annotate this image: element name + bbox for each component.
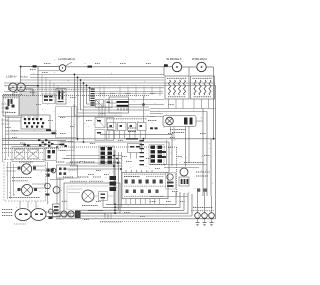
wire - conv box bottom ticks	[65, 213, 67, 218]
wire - latch link	[31, 214, 32, 216]
power cord plug P2	[17, 83, 26, 92]
wire - right link row	[164, 164, 207, 166]
wire - ERC feed verticals	[113, 150, 115, 204]
connector column CN3	[110, 176, 117, 180]
wire - bottom dotted row	[100, 220, 180, 222]
svg-text:L2 RD-WH A: L2 RD-WH A	[59, 57, 76, 61]
wire - right link row 2	[164, 167, 199, 169]
wire - bottom bus corner 1	[106, 192, 176, 204]
wire - bottom bus corner 2	[103, 192, 180, 207]
wire - harness bus 8 dotted	[2, 95, 150, 97]
wire - ERC bottom ticks	[125, 199, 127, 205]
wire - bottom bus corner 5	[56, 194, 192, 216]
relay contact RC1	[96, 100, 104, 108]
thermostat block TB1	[57, 165, 78, 178]
label BTL	[148, 120, 157, 122]
wire - TB2 drops	[130, 153, 132, 159]
wire - right feeder 2	[150, 111, 207, 113]
ERC inner terminal dashes	[124, 173, 166, 175]
label TOD line B	[89, 180, 103, 182]
transformer TR1 winding bars	[117, 101, 129, 103]
switch body DS3	[75, 211, 81, 219]
splice bars right	[46, 129, 51, 131]
svg-text:W RD-WH A: W RD-WH A	[192, 57, 207, 61]
switch assembly SW4	[12, 147, 44, 162]
control transformer box	[109, 97, 129, 113]
wire - harness bus 7b	[95, 92, 163, 94]
label bottom center	[100, 221, 122, 223]
wire - harness bus 3	[20, 79, 164, 81]
label ERC bottom	[124, 195, 164, 197]
relay enclosure E1	[56, 107, 77, 138]
wire - harness bus 5	[4, 84, 216, 86]
splice marks beside CN2	[162, 151, 166, 153]
lamp switch contacts	[184, 118, 188, 125]
fuse F1 inline on L2	[59, 65, 66, 72]
transformer taps	[117, 108, 119, 111]
fuse block FB1	[53, 204, 61, 217]
convection fan motor FM1	[82, 190, 94, 202]
door latch cam DL1	[15, 209, 31, 221]
contact cluster CC2	[47, 169, 50, 172]
wire - bottom bus corner 6	[56, 218, 216, 220]
wire - bottom comb left	[104, 213, 106, 219]
electronic range control board	[122, 173, 168, 199]
wire - harness bus 4	[4, 82, 216, 84]
wire - relay bottom comb	[108, 131, 110, 139]
relay contact RC4	[107, 118, 114, 128]
wire - row y179.5	[50, 179, 64, 181]
wire - harness bus 2	[30, 76, 164, 78]
wire - switch comb	[19, 88, 21, 116]
wire - right vertical 2	[206, 112, 208, 197]
wire - bottom bus corner 3	[88, 193, 184, 210]
wire - motor box internals	[7, 162, 9, 199]
label ERC mid	[146, 176, 164, 178]
ground symbol G1	[196, 222, 200, 224]
thermal switch TS1	[44, 96, 48, 98]
element block EB2	[191, 76, 215, 99]
label cluster C1	[128, 127, 137, 129]
element block EB1	[165, 76, 189, 99]
wire - convection internal leads	[68, 188, 83, 190]
contact pair CP1	[46, 148, 57, 161]
wire - mid-left rows	[5, 130, 57, 132]
wire - L2 supply run	[21, 66, 60, 68]
label neutral wire	[3, 94, 22, 96]
ground symbol G2	[203, 222, 207, 224]
wire - nest continuations	[77, 113, 79, 141]
wire - left drop comb	[56, 178, 58, 204]
label TOD line A	[70, 180, 87, 182]
label left edge column	[2, 103, 10, 105]
power cord plug P1	[9, 83, 18, 92]
svg-text:W RD-WH A: W RD-WH A	[167, 57, 182, 61]
oven temperature sensor	[180, 168, 188, 176]
wire - RC top link	[112, 99, 164, 101]
wire - above corner link	[150, 196, 188, 198]
wire - ERC feed horizontals	[66, 162, 122, 164]
relay K3	[128, 123, 137, 131]
wire - element block drops	[168, 99, 170, 109]
wire - TR lead	[108, 102, 117, 104]
wire color labels sprinkled	[42, 72, 48, 74]
node - L2 termination	[164, 64, 168, 67]
relay contact RC2	[105, 100, 112, 108]
label motor box bottom	[9, 197, 40, 199]
oven lamp assembly box	[163, 116, 196, 127]
relay contact RC6	[107, 130, 114, 141]
wire - nest down stubs	[98, 100, 100, 117]
wire - bottom bus corner 4	[56, 193, 188, 213]
label lamp designators	[191, 210, 214, 212]
label ERC title	[124, 176, 140, 178]
junction box JB1	[21, 115, 50, 129]
wire - plug leads	[25, 85, 38, 87]
oven lamp LA1	[166, 117, 174, 125]
wire - right vertical 3	[210, 139, 212, 196]
indicator lamp IL3	[209, 213, 215, 219]
wire - lamp box drops	[170, 127, 172, 135]
door switch DS1	[61, 211, 67, 217]
surface element SE1	[172, 62, 181, 71]
wire - mid bus 3	[60, 142, 169, 173]
convection enclosure outer	[64, 183, 120, 213]
node - bus junction dots	[74, 74, 76, 76]
relay contact RC3	[95, 118, 105, 128]
wire - bus drop ticks	[41, 74, 43, 95]
sensor companion switch	[166, 173, 176, 190]
splice on L2 right	[88, 66, 93, 68]
splice cluster B	[38, 139, 40, 141]
door latch cam DL2	[31, 209, 46, 221]
surface element SE2	[197, 62, 206, 71]
wire - nested drop bundle	[75, 74, 123, 116]
splice pair right-center	[150, 127, 153, 129]
wire - left edge verticals	[2, 118, 4, 162]
label bottom lamps	[193, 207, 213, 209]
relay K2	[118, 123, 127, 131]
wire - mid bus 4 dotted	[60, 146, 177, 148]
wire - mid bus 1	[100, 134, 172, 166]
wire - harness bus 6	[8, 87, 164, 89]
label convection fan	[82, 205, 98, 207]
latch motor enclosure dashed	[4, 160, 46, 202]
latch aux contacts	[49, 209, 54, 214]
splice column SC1	[140, 140, 145, 141]
wire - ERC feed left 2	[62, 158, 122, 160]
indicator lamp IL2	[202, 213, 208, 219]
label under ovals	[14, 223, 26, 225]
wire - right feeder 1	[150, 108, 216, 110]
wire - dotted row above dashed box	[2, 151, 44, 153]
wire - oven sensor leads	[185, 127, 187, 167]
wire - under relay row	[58, 116, 164, 118]
label center row y162	[56, 161, 65, 163]
label sensor line 1	[196, 171, 210, 173]
wire - harness bus 7	[4, 91, 163, 93]
relay K1	[108, 123, 117, 131]
indicator lamp IL1	[195, 213, 201, 219]
label bus band dotted row	[8, 89, 88, 91]
wire - mid bus 2	[2, 138, 216, 140]
wire - main left drop	[37, 67, 39, 119]
ERC component row 2	[126, 190, 129, 194]
wire - ERC feed left 1	[66, 155, 122, 157]
label latch motor upper	[19, 161, 33, 163]
wire - TR to right	[129, 104, 165, 106]
wire - branch stub	[38, 70, 59, 72]
wire - left bundle	[2, 139, 66, 141]
label above ERC	[150, 164, 166, 166]
wire - harness bus 1	[30, 73, 164, 75]
wire - dashed box to ovals	[19, 201, 21, 209]
wire - SE1 leads	[164, 66, 172, 68]
wire - right vertical 4	[215, 85, 217, 218]
fuse FP1	[197, 189, 200, 192]
label motor box middle	[12, 177, 32, 179]
label relay row	[107, 118, 147, 120]
wire - CN2 side vertical	[166, 140, 168, 165]
connector CN2	[149, 145, 164, 165]
selector switch block SW1	[3, 96, 19, 116]
relay K4	[138, 123, 147, 131]
connector CN1	[99, 146, 114, 165]
connector pin strip PS1	[91, 89, 95, 90]
thermostat pilot circle	[51, 168, 56, 173]
node - ERC feed junctions	[113, 165, 115, 167]
door switch DS2	[68, 211, 74, 217]
latch motor M2	[22, 185, 33, 196]
ERC top terminals	[125, 170, 127, 173]
wire - door switch leads	[81, 210, 104, 212]
splice on L2 left	[33, 65, 37, 67]
fuse FP2	[204, 189, 207, 192]
wire - SE2 leads	[189, 66, 197, 68]
wire - lamp leads	[150, 113, 163, 115]
wire - below switch lines	[5, 117, 21, 119]
relay contact RC5	[95, 130, 105, 141]
label SL-DSC	[184, 162, 204, 164]
label door latch rows	[2, 209, 13, 211]
latch motor M1	[21, 164, 31, 174]
ERC component row 1	[125, 180, 128, 184]
fan capacitor	[99, 192, 108, 201]
label oven lamp	[170, 129, 186, 131]
terminal box TB2	[128, 144, 142, 153]
scan speckle texture	[4, 59, 213, 221]
wire - latch to switches	[46, 211, 61, 213]
svg-text:RD(B)A: RD(B)A	[20, 76, 28, 79]
latch switch chain	[47, 162, 49, 204]
terminal block T1	[56, 89, 66, 105]
small box below E1	[58, 142, 74, 151]
wire - center vertical pair	[71, 107, 73, 165]
svg-text:L1 BK-A: L1 BK-A	[6, 75, 16, 79]
convection enclosure inner	[67, 186, 117, 210]
ground symbol G3	[210, 222, 214, 224]
node - TR junction	[142, 103, 145, 106]
wire - junction drop	[143, 96, 145, 122]
wire - L2 left drop to plug	[20, 67, 22, 84]
label sensor line 2	[196, 175, 208, 177]
wire - right vertical 1	[202, 109, 204, 197]
motor protector MP1	[53, 187, 60, 194]
label center row y177	[63, 176, 73, 178]
